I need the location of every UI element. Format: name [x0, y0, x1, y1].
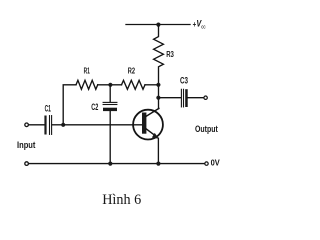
node: collector / C3 junction [156, 96, 160, 100]
svg-text:R1: R1 [84, 67, 91, 76]
transistor Q1 [133, 108, 163, 139]
node B: R1/R2/C2 junction [108, 83, 112, 87]
node A: C1 / R1 / base junction [61, 123, 65, 127]
svg-text:C1: C1 [45, 104, 51, 114]
resistor R1 [76, 80, 98, 89]
capacitor C2 lead (top) [109, 85, 111, 102]
wire: C1 to node A [52, 124, 63, 126]
wire: base line [63, 124, 142, 126]
terminal: input [25, 123, 29, 127]
node: Vcc / R3 junction [156, 23, 160, 27]
svg-text:CC: CC [201, 25, 206, 31]
svg-text:Input: Input [17, 140, 35, 150]
node: emitter / rail junction [156, 162, 160, 166]
wire: C3 branch [159, 97, 181, 99]
terminal: 0V [205, 162, 208, 165]
svg-text:Hình 6: Hình 6 [102, 192, 141, 208]
label +Vcc [193, 19, 206, 31]
svg-text:R3: R3 [166, 50, 174, 59]
svg-text:0V: 0V [211, 157, 220, 167]
capacitor C2 lead (bottom) [109, 111, 111, 164]
wire: +Vcc top rail [126, 24, 190, 26]
svg-text:Output: Output [195, 124, 218, 134]
wire: 0V bottom rail [29, 163, 205, 165]
node: R2 / R3 junction [156, 83, 160, 87]
wire: left vertical from node A up to R1 [63, 85, 76, 125]
wire: R2 to collector line [145, 84, 159, 86]
terminal: output [204, 96, 207, 99]
capacitor C3 [181, 89, 187, 107]
terminal: bottom left [25, 162, 29, 166]
wire: emitter down to rail [157, 138, 159, 163]
resistor R2 [122, 80, 146, 89]
svg-text:C2: C2 [91, 102, 98, 112]
wire: collector vertical (R2 node down to collector) [158, 85, 160, 109]
svg-text:R2: R2 [128, 67, 136, 76]
capacitor C2 [103, 102, 117, 111]
wire: R1 to R2 [98, 84, 122, 86]
node: C2 / rail junction [108, 162, 112, 166]
wire: C3 to output terminal [188, 97, 204, 99]
wire: input to C1 [29, 124, 45, 126]
capacitor C1 [44, 116, 51, 135]
resistor R3 [154, 25, 164, 85]
svg-text:C3: C3 [180, 76, 188, 87]
